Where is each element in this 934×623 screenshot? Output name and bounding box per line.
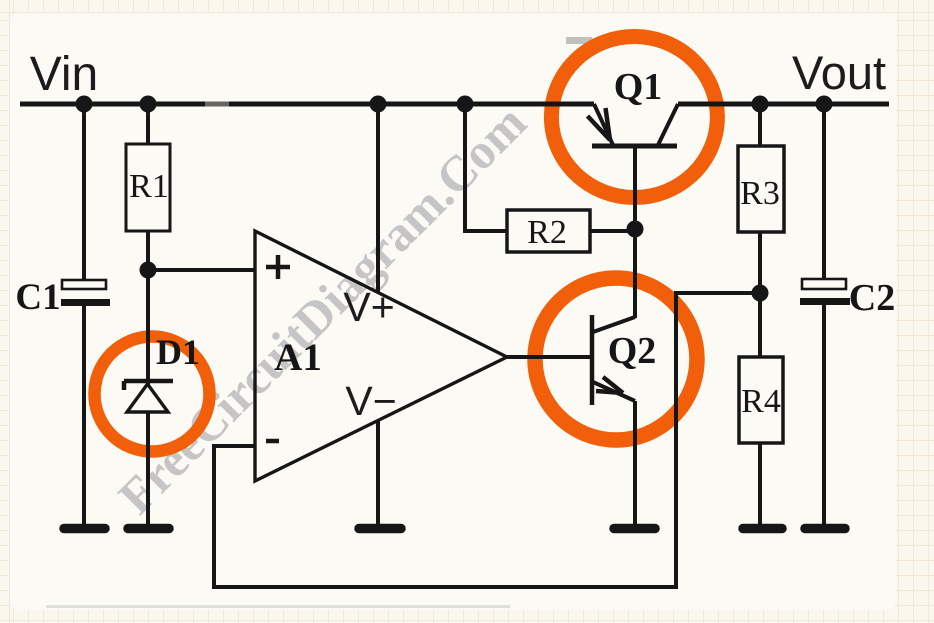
svg-text:Vin: Vin: [30, 48, 99, 101]
svg-text:R2: R2: [527, 214, 567, 251]
svg-text:R3: R3: [740, 175, 780, 212]
svg-text:FreeCircuitDiagram.Com: FreeCircuitDiagram.Com: [107, 94, 536, 525]
svg-text:D1: D1: [156, 332, 200, 372]
svg-text:Vout: Vout: [792, 46, 886, 99]
svg-text:V−: V−: [345, 378, 396, 424]
svg-text:A1: A1: [274, 336, 322, 379]
svg-text:C1: C1: [15, 277, 60, 318]
svg-text:Q2: Q2: [608, 330, 657, 372]
svg-text:R4: R4: [741, 383, 781, 420]
svg-text:R1: R1: [129, 168, 169, 205]
svg-text:Q1: Q1: [614, 66, 663, 108]
svg-text:C2: C2: [849, 277, 895, 319]
svg-text:V+: V+: [343, 284, 394, 330]
